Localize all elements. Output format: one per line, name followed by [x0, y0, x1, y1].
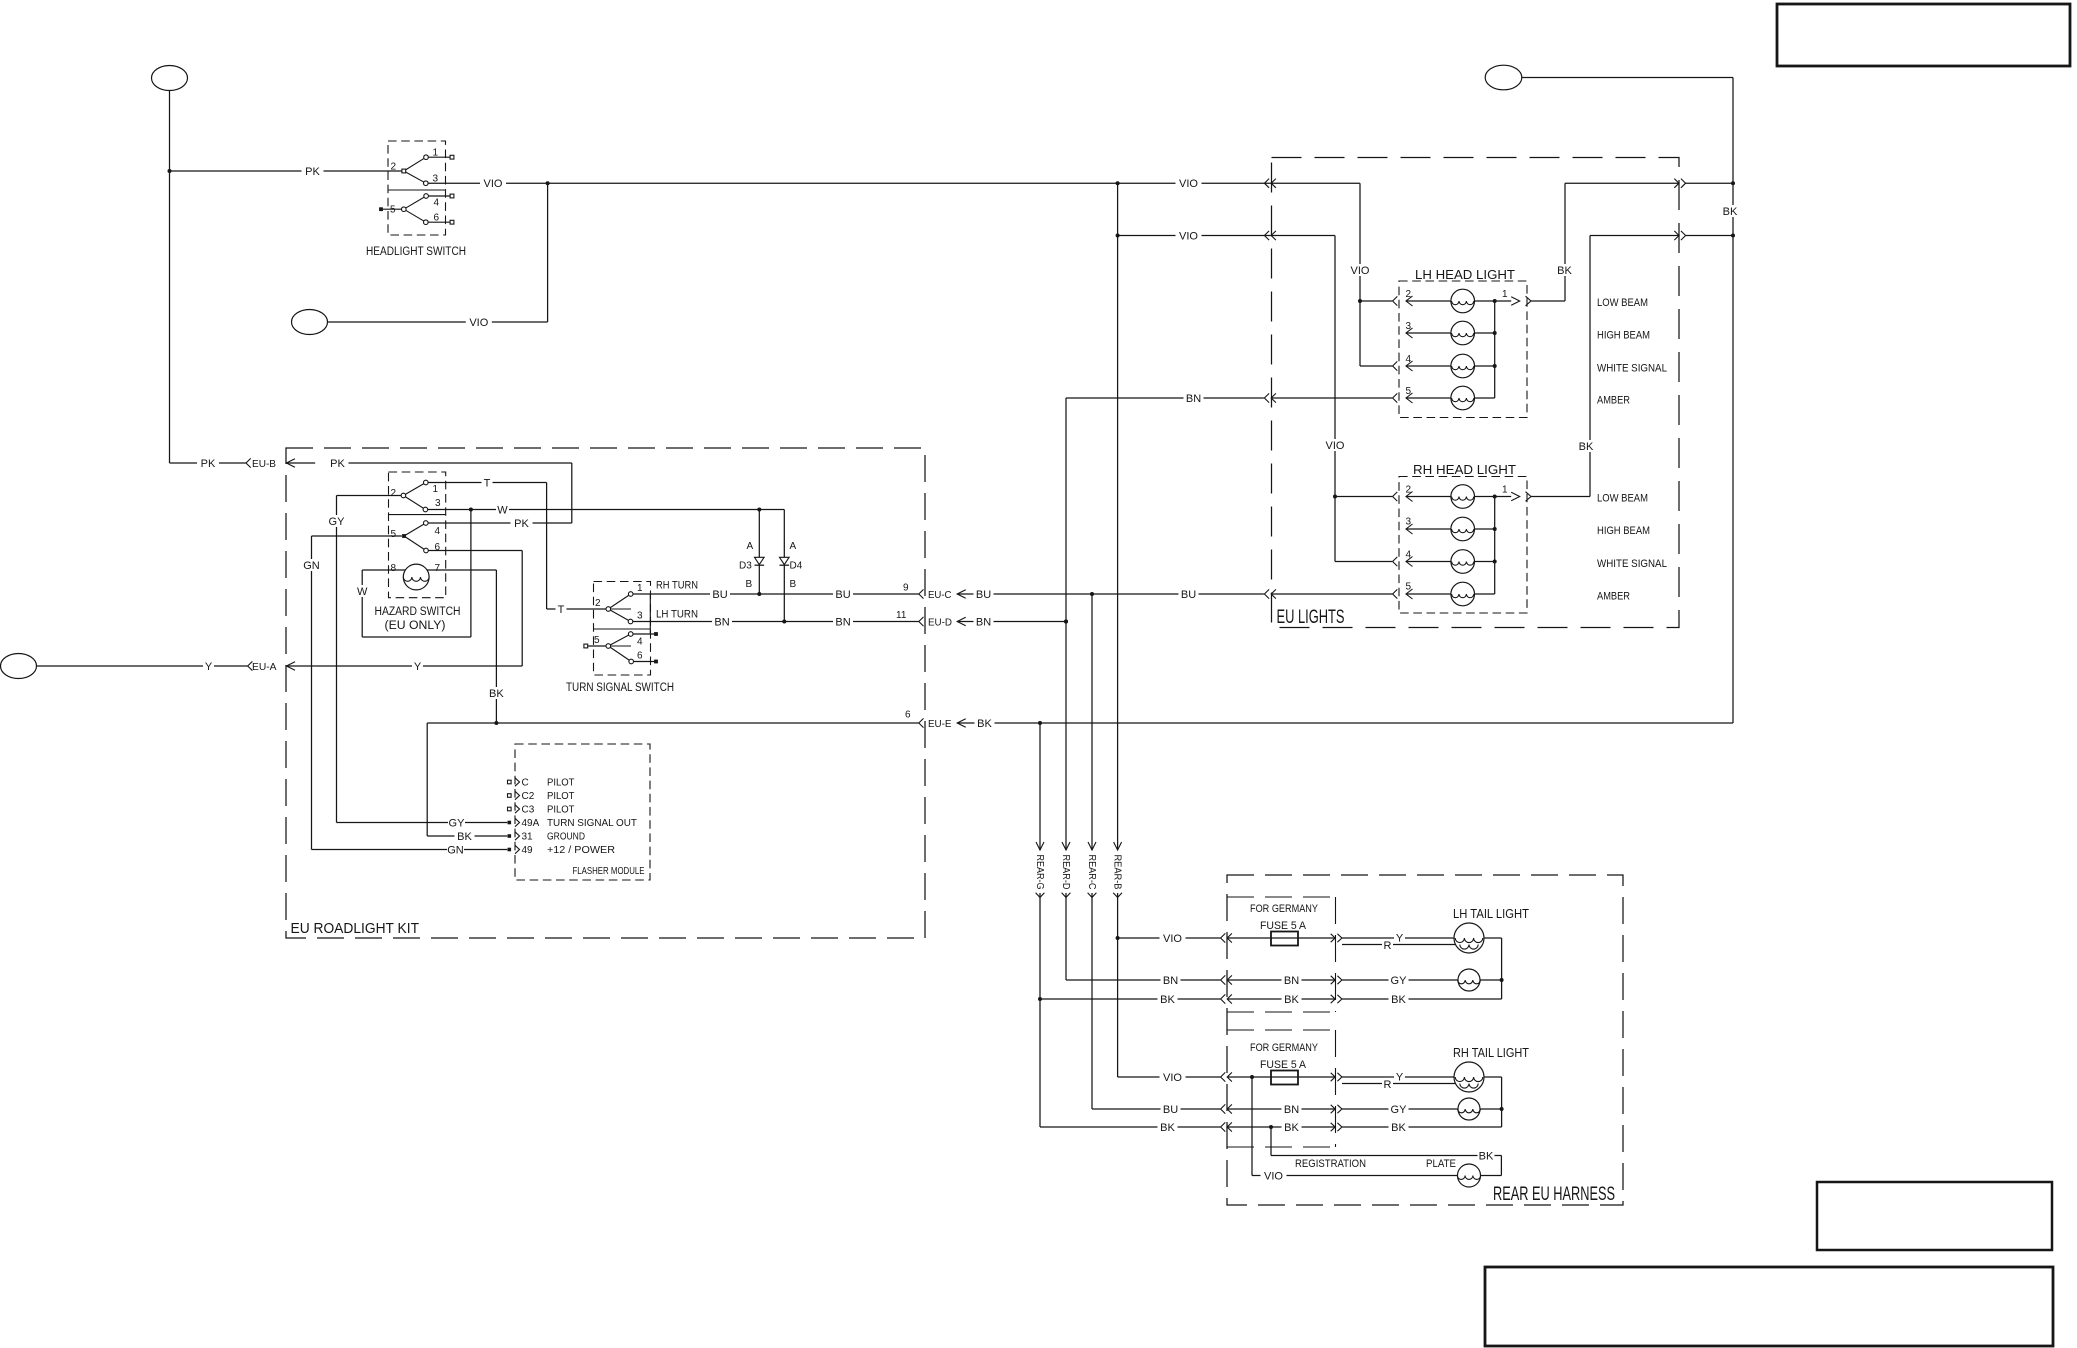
LH head light [1271, 267, 1565, 418]
svg-text:GY: GY [1391, 975, 1408, 987]
RH tail connector dashed box [1227, 1030, 1336, 1147]
wire BK (RH head light pin1 to right bus) [1576, 236, 1733, 497]
svg-text:EU-E: EU-E [928, 718, 952, 730]
diode D3 [739, 510, 764, 597]
svg-text:REAR-B: REAR-B [1111, 855, 1123, 890]
svg-text:5: 5 [390, 205, 396, 216]
svg-text:VIO: VIO [1179, 178, 1198, 190]
wire VIO (switch pin3 to EU LIGHTS, with ellipse branch) [328, 177, 1360, 329]
svg-text:GY: GY [1391, 1104, 1408, 1116]
svg-text:EU-A: EU-A [252, 661, 277, 673]
svg-text:PK: PK [514, 518, 529, 530]
EU LIGHTS left edge connector chevrons [1264, 179, 1276, 599]
svg-text:FUSE 5 A: FUSE 5 A [1260, 920, 1307, 932]
EU ROADLIGHT KIT dashed box [286, 448, 925, 938]
svg-text:49: 49 [522, 845, 534, 856]
svg-text:6: 6 [637, 651, 643, 662]
svg-text:EU-D: EU-D [928, 617, 952, 629]
svg-text:R: R [1384, 1079, 1392, 1091]
svg-text:A: A [790, 541, 797, 552]
svg-text:3: 3 [1406, 517, 1412, 528]
svg-text:WHITE SIGNAL: WHITE SIGNAL [1597, 558, 1667, 570]
svg-text:BK: BK [1723, 206, 1738, 218]
svg-text:BU: BU [712, 589, 727, 601]
svg-text:Y: Y [1396, 1072, 1404, 1084]
svg-text:T: T [484, 478, 491, 490]
wire BU / connector EU-C (turn signal pin1 to RH amber) [633, 583, 1264, 602]
svg-text:1: 1 [637, 583, 643, 594]
svg-text:REAR-G: REAR-G [1034, 855, 1046, 890]
svg-text:11: 11 [896, 610, 907, 621]
svg-text:FOR GERMANY: FOR GERMANY [1250, 903, 1319, 915]
svg-text:RH TAIL LIGHT: RH TAIL LIGHT [1453, 1045, 1529, 1060]
EU LIGHTS dashed box [1272, 158, 1680, 629]
svg-text:49A: 49A [522, 818, 540, 829]
svg-text:VIO: VIO [484, 178, 503, 190]
wire BK (LH head light pin1 to right bus) [1555, 183, 1734, 301]
LH tail light with Germany fuse [1040, 903, 1529, 1006]
wire T (hazard pin1 to turn signal switch pin2) [428, 477, 606, 617]
registration plate light [1252, 1077, 1501, 1187]
REAR EU HARNESS dashed box [1227, 875, 1623, 1205]
RH tail light with Germany fuse [1040, 1042, 1529, 1134]
svg-text:D4: D4 [790, 561, 803, 572]
svg-text:6: 6 [434, 213, 440, 224]
svg-text:BK: BK [1284, 994, 1299, 1006]
flasher module [508, 744, 651, 880]
svg-text:W: W [357, 586, 368, 598]
svg-text:R: R [1384, 940, 1392, 952]
svg-text:AMBER: AMBER [1597, 395, 1630, 407]
wire W (hazard pin3 / pilot lamp pin8 loop to diodes) [356, 504, 785, 638]
svg-text:4: 4 [435, 526, 441, 537]
svg-text:LOW BEAM: LOW BEAM [1597, 297, 1648, 309]
svg-text:BN: BN [1284, 975, 1299, 987]
svg-text:VIO: VIO [1163, 933, 1182, 945]
svg-text:1: 1 [1502, 485, 1508, 496]
wire GY (hazard pin2 to flasher turn signal out) [328, 496, 507, 830]
svg-text:5: 5 [1406, 582, 1412, 593]
svg-text:T: T [558, 604, 565, 616]
svg-text:HEADLIGHT SWITCH: HEADLIGHT SWITCH [366, 246, 466, 258]
svg-text:BK: BK [977, 718, 992, 730]
svg-text:6: 6 [435, 542, 441, 553]
svg-text:GROUND: GROUND [547, 831, 585, 843]
svg-text:GY: GY [449, 818, 466, 830]
wire GN (hazard pin5 to flasher +12 power) [303, 536, 507, 857]
svg-text:3: 3 [435, 498, 441, 509]
svg-text:BN: BN [835, 617, 850, 629]
svg-text:VIO: VIO [1326, 440, 1345, 452]
svg-text:LH TAIL LIGHT: LH TAIL LIGHT [1453, 906, 1529, 921]
wire Y (hazard pin6 to EU-A) [315, 551, 522, 674]
svg-text:Y: Y [414, 661, 422, 673]
svg-text:TURN SIGNAL OUT: TURN SIGNAL OUT [547, 817, 638, 829]
svg-text:BN: BN [1284, 1104, 1299, 1116]
svg-text:B: B [790, 579, 797, 590]
svg-text:BK: BK [457, 831, 472, 843]
svg-text:PK: PK [330, 458, 345, 470]
svg-text:FLASHER MODULE: FLASHER MODULE [573, 865, 645, 877]
svg-text:1: 1 [433, 484, 439, 495]
svg-text:4: 4 [637, 637, 643, 648]
svg-text:EU-C: EU-C [928, 589, 952, 601]
svg-text:BK: BK [1391, 1122, 1406, 1134]
svg-text:PILOT: PILOT [547, 777, 575, 789]
wire BK right bus (top-right ellipse down to EU-E row) [1522, 78, 1740, 724]
svg-text:HIGH BEAM: HIGH BEAM [1597, 525, 1650, 537]
svg-text:RH HEAD LIGHT: RH HEAD LIGHT [1413, 462, 1516, 477]
svg-text:EU LIGHTS: EU LIGHTS [1277, 607, 1345, 628]
wire BN / connector EU-D (turn signal pin3 to LH amber) [633, 610, 1068, 629]
svg-text:GN: GN [303, 560, 320, 572]
svg-text:5: 5 [391, 529, 397, 540]
svg-text:Y: Y [1396, 933, 1404, 945]
svg-text:RH TURN: RH TURN [656, 580, 698, 592]
LH head light function labels [1597, 297, 1667, 407]
svg-text:GY: GY [329, 516, 346, 528]
svg-text:B: B [746, 579, 753, 590]
svg-text:FUSE 5 A: FUSE 5 A [1260, 1059, 1307, 1071]
svg-text:BN: BN [976, 617, 991, 629]
svg-text:VIO: VIO [1351, 265, 1370, 277]
top-right title block rectangle [1777, 4, 2070, 66]
svg-text:PK: PK [305, 166, 320, 178]
svg-text:BN: BN [1163, 975, 1178, 987]
svg-text:PLATE: PLATE [1426, 1158, 1456, 1170]
svg-text:4: 4 [434, 198, 440, 209]
svg-text:W: W [497, 505, 508, 517]
svg-text:A: A [747, 541, 754, 552]
svg-text:3: 3 [637, 611, 643, 622]
svg-text:BK: BK [1479, 1151, 1494, 1163]
svg-text:2: 2 [1406, 485, 1412, 496]
svg-text:7: 7 [435, 563, 441, 574]
wire VIO drop to RH head light pins 2 and 4 [1322, 236, 1348, 562]
EU LIGHTS right edge connector chevrons [1674, 179, 1685, 241]
svg-text:C: C [522, 778, 529, 789]
svg-text:BK: BK [1557, 265, 1572, 277]
svg-text:1: 1 [1502, 289, 1508, 300]
connector ellipse mid-left (VIO feed) [292, 310, 328, 335]
svg-text:Y: Y [205, 661, 213, 673]
svg-text:PILOT: PILOT [547, 790, 575, 802]
svg-text:FOR GERMANY: FOR GERMANY [1250, 1042, 1319, 1054]
svg-text:HAZARD SWITCH: HAZARD SWITCH [375, 606, 461, 618]
svg-text:BN: BN [714, 617, 729, 629]
connector EU-A with Y wire from far-left ellipse [37, 660, 316, 673]
svg-text:(EU ONLY): (EU ONLY) [385, 620, 446, 632]
svg-text:VIO: VIO [1264, 1171, 1283, 1183]
svg-text:C2: C2 [522, 791, 535, 802]
connector ellipse top-left [152, 66, 188, 91]
svg-text:EU-B: EU-B [252, 458, 276, 470]
svg-text:2: 2 [595, 598, 601, 609]
svg-text:+12 / POWER: +12 / POWER [547, 844, 615, 856]
svg-text:BK: BK [1160, 994, 1175, 1006]
connector EU-B with PK wire to hazard switch pin 4 [170, 457, 572, 523]
svg-text:VIO: VIO [1179, 231, 1198, 243]
wire PK (hazard pin4) [428, 517, 572, 530]
svg-text:REAR-C: REAR-C [1086, 855, 1098, 890]
svg-text:6: 6 [905, 710, 911, 721]
headlight switch [366, 141, 466, 258]
svg-text:VIO: VIO [469, 317, 488, 329]
hazard switch (EU only) [375, 472, 461, 632]
svg-text:31: 31 [522, 832, 534, 843]
wire BK (hazard pin7 down to EU-E row) [427, 570, 506, 723]
svg-text:BK: BK [1579, 441, 1594, 453]
wire PK (ellipse to headlight switch pin 2) [168, 91, 402, 464]
svg-text:8: 8 [391, 563, 397, 574]
wire VIO rear drop / connector REAR-B [1111, 183, 1123, 1077]
wire BK rear drop / connector REAR-G [1034, 723, 1046, 1127]
svg-text:VIO: VIO [1163, 1072, 1182, 1084]
svg-text:4: 4 [1406, 354, 1412, 365]
svg-text:GN: GN [447, 845, 464, 857]
svg-text:REAR EU HARNESS: REAR EU HARNESS [1493, 1184, 1615, 1205]
svg-text:BK: BK [1391, 994, 1406, 1006]
svg-text:2: 2 [391, 488, 397, 499]
connector ellipse far-left (Y feed) [1, 654, 37, 679]
wire VIO row2 (to RH head light) [1116, 230, 1335, 243]
svg-text:C3: C3 [522, 805, 535, 816]
svg-text:2: 2 [1406, 289, 1412, 300]
svg-text:BU: BU [835, 589, 850, 601]
connector ellipse top-right (BK feed) [1485, 65, 1522, 90]
svg-text:BU: BU [1181, 589, 1196, 601]
svg-text:9: 9 [903, 583, 909, 594]
RH head light function labels [1597, 493, 1667, 603]
svg-text:LH HEAD LIGHT: LH HEAD LIGHT [1415, 267, 1515, 282]
svg-text:1: 1 [433, 148, 439, 159]
svg-text:PK: PK [201, 458, 216, 470]
LH tail connector dashed box [1227, 897, 1336, 1012]
svg-text:BU: BU [976, 589, 991, 601]
svg-text:BK: BK [489, 688, 504, 700]
wire BN rear drop / connector REAR-D [1060, 398, 1072, 980]
svg-text:LH TURN: LH TURN [656, 609, 698, 621]
svg-text:TURN SIGNAL SWITCH: TURN SIGNAL SWITCH [566, 682, 674, 694]
svg-text:AMBER: AMBER [1597, 591, 1630, 603]
svg-text:5: 5 [594, 635, 600, 646]
svg-text:PILOT: PILOT [547, 804, 575, 816]
svg-text:REAR-D: REAR-D [1060, 855, 1072, 890]
svg-text:BK: BK [1160, 1122, 1175, 1134]
svg-text:LOW BEAM: LOW BEAM [1597, 493, 1648, 505]
diode D4 [780, 510, 803, 624]
svg-text:4: 4 [1406, 550, 1412, 561]
turn signal switch [566, 580, 698, 695]
svg-text:WHITE SIGNAL: WHITE SIGNAL [1597, 363, 1667, 375]
svg-text:BK: BK [1284, 1122, 1299, 1134]
wire BK / connector EU-E (ground return) [427, 710, 1733, 844]
wire BU rear drop / connector REAR-C [1086, 594, 1098, 1109]
svg-text:BN: BN [1186, 393, 1201, 405]
RH head light [1271, 462, 1590, 613]
svg-text:BU: BU [1163, 1104, 1178, 1116]
bottom-right large title block rectangle [1485, 1267, 2053, 1346]
wire BN (LH amber feed) [1066, 392, 1264, 405]
svg-text:HIGH BEAM: HIGH BEAM [1597, 330, 1650, 342]
svg-text:3: 3 [1406, 321, 1412, 332]
svg-text:D3: D3 [739, 561, 752, 572]
svg-text:EU ROADLIGHT KIT: EU ROADLIGHT KIT [291, 921, 420, 937]
wire VIO drop to LH head light pins 2 and 4 [1347, 183, 1373, 366]
svg-text:5: 5 [1406, 386, 1412, 397]
bottom-right small title block rectangle [1817, 1182, 2052, 1250]
svg-text:REGISTRATION: REGISTRATION [1295, 1158, 1366, 1170]
